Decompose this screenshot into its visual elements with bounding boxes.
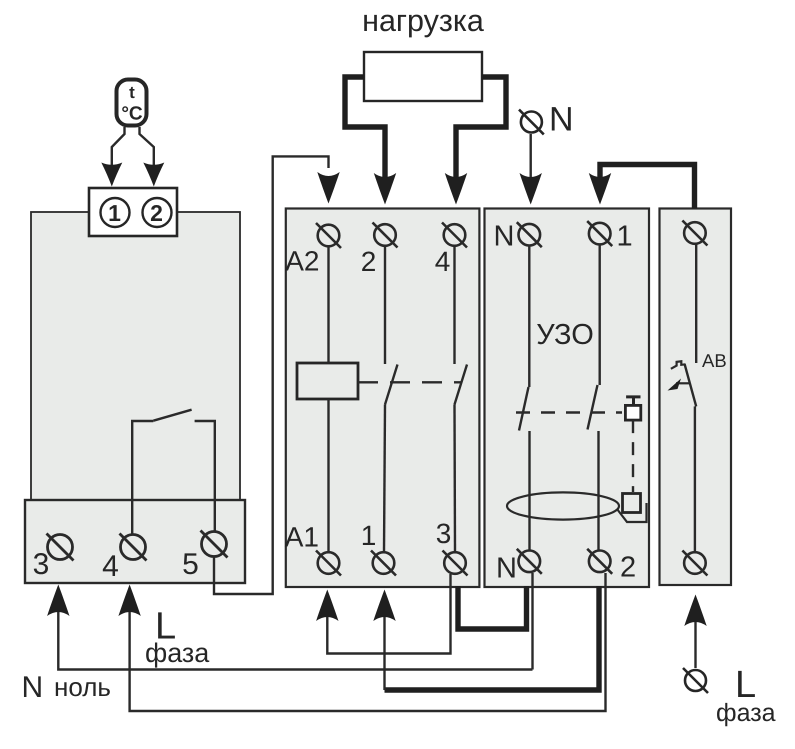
- breaker trip arrow shaft: [676, 382, 689, 384]
- linkage dashed horizontal: [516, 411, 622, 413]
- terminal bottom: [682, 551, 707, 576]
- arrow into sensor terminal 1: [101, 163, 122, 187]
- svg-text:4: 4: [435, 246, 451, 277]
- svg-text:N: N: [494, 221, 515, 253]
- breaker trip arrowhead: [668, 379, 682, 391]
- svg-text:нагрузка: нагрузка: [362, 4, 484, 38]
- RCD switch blade N: [519, 387, 529, 431]
- arrow into boiler terminal 4: [118, 585, 140, 617]
- boiler body box: [31, 212, 240, 500]
- load rectangle: [364, 52, 482, 101]
- wire contactor 3 to A1 loop: [327, 574, 450, 654]
- terminal 2: [373, 223, 398, 248]
- terminal 2 bottom: [587, 549, 612, 574]
- arrow into contactor A1: [316, 590, 338, 622]
- svg-text:1: 1: [108, 200, 121, 226]
- wire 2 upper: [384, 246, 386, 364]
- svg-text:4: 4: [102, 550, 119, 583]
- breaker blade: [685, 364, 697, 406]
- arrow into contactor 4: [445, 173, 467, 205]
- arrow into sensor terminal 2: [143, 163, 164, 187]
- arrow into АВ bottom: [684, 595, 706, 627]
- svg-text:фаза: фаза: [716, 699, 776, 727]
- wire 4 upper: [453, 246, 455, 364]
- thick wire contactor 3 to УЗО N bottom: [458, 586, 527, 629]
- coil K1: [297, 363, 358, 399]
- svg-text:2: 2: [150, 200, 163, 226]
- sensor terminal 2 circle: [143, 198, 172, 227]
- wire up into contactor 1: [383, 614, 385, 690]
- wire 1 lower: [597, 431, 599, 550]
- test button square: [625, 405, 640, 420]
- mechanical linkage dashed: [358, 381, 462, 383]
- svg-text:3: 3: [436, 518, 452, 549]
- svg-text:N: N: [22, 671, 44, 704]
- wire N upper: [528, 246, 530, 387]
- neutral bus wire y669 boiler 3 to УЗО N: [58, 606, 532, 670]
- terminal 4: [120, 534, 147, 561]
- thick wire load left to contactor 2: [345, 77, 385, 177]
- arrow into УЗО 1: [589, 173, 611, 205]
- toroid current transformer: [507, 492, 619, 519]
- terminal 3: [443, 551, 468, 576]
- terminal 1 top: [587, 221, 612, 246]
- breaker release hook: [671, 361, 686, 369]
- toroid pickup hook: [617, 503, 647, 522]
- svg-text:АВ: АВ: [702, 350, 727, 371]
- terminal 3: [47, 534, 74, 561]
- svg-text:°C: °C: [121, 104, 143, 125]
- terminal N top: [517, 222, 542, 247]
- svg-text:УЗО: УЗО: [536, 319, 594, 351]
- svg-text:1: 1: [361, 520, 377, 551]
- boiler terminal strip box: [25, 500, 245, 583]
- wire sensor left lead: [112, 127, 125, 168]
- temperature sensor pill t°C: [117, 80, 147, 126]
- УЗО body: [485, 209, 650, 588]
- terminal A1: [316, 551, 341, 576]
- N source terminal: [521, 112, 542, 133]
- thick wire АВ top to УЗО 1: [600, 165, 695, 209]
- svg-text:1: 1: [617, 221, 633, 253]
- svg-text:A2: A2: [285, 246, 319, 277]
- wire 4 lower to 3: [453, 405, 456, 553]
- arrow into boiler terminal 3: [47, 585, 69, 617]
- arrow into contactor A2: [317, 172, 339, 204]
- wire A2 to coil: [327, 247, 329, 364]
- arrow into УЗО N: [520, 173, 542, 205]
- svg-text:N: N: [549, 101, 574, 139]
- contact blade (pole 4): [455, 365, 468, 405]
- svg-text:t: t: [129, 83, 135, 102]
- test button T handle: [626, 397, 640, 406]
- terminal 1: [371, 551, 396, 576]
- svg-text:2: 2: [361, 246, 377, 277]
- wire up to АВ: [694, 618, 696, 668]
- АВ body: [660, 209, 732, 586]
- wire N lower: [528, 431, 530, 550]
- arrow into contactor 2: [374, 173, 396, 205]
- switch blade: [153, 410, 191, 421]
- sensor terminal 1 circle: [101, 198, 130, 227]
- dashed vertical from test button: [632, 420, 634, 492]
- thick wire УЗО 2 to contactor 1: [385, 586, 600, 690]
- toroid pickup square: [623, 494, 641, 513]
- wire sensor right lead: [140, 127, 154, 168]
- terminal 5: [201, 531, 228, 558]
- sensor terminal box: [89, 188, 177, 236]
- L source terminal: [685, 670, 706, 691]
- svg-text:2: 2: [620, 552, 636, 584]
- wire 1 upper: [599, 245, 601, 385]
- boiler internal switch: wire from terminal 4 up: [132, 421, 153, 535]
- thick wire load right to contactor 4: [456, 77, 506, 177]
- arrow into contactor 1: [373, 590, 395, 622]
- thin wire УЗО 2 to boiler 4 phase: [130, 573, 606, 711]
- svg-text:ноль: ноль: [54, 672, 111, 702]
- svg-text:3: 3: [33, 548, 50, 581]
- wire coil to A1: [327, 399, 329, 552]
- svg-text:N: N: [496, 553, 517, 585]
- wire bottom: [694, 406, 696, 552]
- wire 2 lower to 1: [384, 405, 385, 553]
- terminal top: [682, 221, 707, 246]
- switch fixed side wire to terminal 5: [195, 421, 215, 532]
- RCD switch blade 1: [588, 385, 598, 430]
- terminal N bottom: [517, 549, 542, 574]
- terminal 4: [442, 223, 467, 248]
- svg-text:фаза: фаза: [145, 638, 210, 668]
- contact blade (pole 2): [385, 365, 398, 405]
- svg-text:A1: A1: [285, 522, 319, 553]
- terminal A2: [316, 223, 341, 248]
- contactor body: [286, 209, 480, 588]
- thin wire УЗО N bottom down: [531, 573, 533, 670]
- wire top: [695, 244, 697, 363]
- wire N down: [530, 134, 532, 178]
- svg-text:5: 5: [182, 548, 199, 581]
